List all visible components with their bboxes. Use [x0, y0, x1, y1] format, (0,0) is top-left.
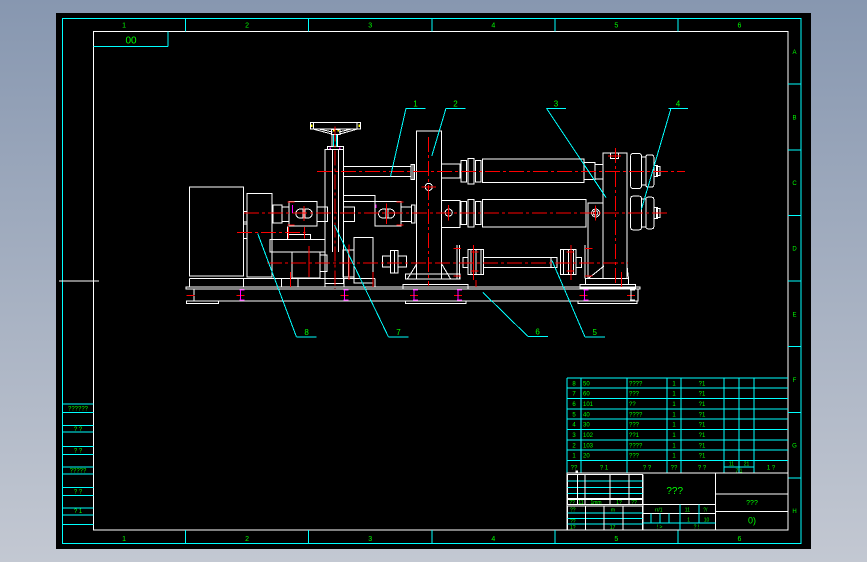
- svg-text:1: 1: [687, 517, 690, 523]
- svg-text:? ?: ? ?: [74, 427, 83, 433]
- svg-text:????: ????: [629, 443, 643, 449]
- svg-text:0): 0): [748, 516, 756, 526]
- svg-text:rr/1: rr/1: [655, 507, 663, 513]
- svg-text:?????: ?????: [70, 469, 87, 475]
- svg-text:?1: ?1: [699, 423, 706, 429]
- svg-text:11: 11: [685, 507, 690, 513]
- svg-text:4: 4: [491, 536, 495, 543]
- svg-text:1?: 1?: [616, 500, 622, 506]
- svg-text:2: 2: [245, 23, 249, 30]
- svg-text:50: 50: [583, 381, 590, 387]
- svg-text:101: 101: [583, 402, 594, 408]
- svg-text:30: 30: [583, 423, 590, 429]
- svg-text:40: 40: [583, 412, 590, 418]
- svg-text:? ?: ? ?: [643, 466, 652, 472]
- svg-text:?1: ?1: [699, 402, 706, 408]
- svg-text:! >: ! >: [657, 525, 663, 531]
- svg-text:?1: ?1: [699, 412, 706, 418]
- svg-text:103: 103: [583, 443, 594, 449]
- svg-text:???: ???: [629, 454, 640, 460]
- svg-text:102: 102: [583, 433, 594, 439]
- svg-text:10: 10: [704, 517, 710, 523]
- svg-text:G: G: [792, 444, 797, 450]
- svg-text:2: 2: [453, 99, 458, 108]
- svg-text:7: 7: [396, 328, 401, 337]
- svg-text:D: D: [792, 247, 797, 253]
- svg-text:4: 4: [676, 99, 681, 108]
- svg-text:???: ???: [629, 423, 640, 429]
- svg-text:F: F: [793, 378, 797, 384]
- svg-text:? 1: ? 1: [74, 509, 83, 515]
- svg-text:1: 1: [413, 99, 418, 108]
- svg-text:?1: ?1: [699, 433, 706, 439]
- svg-text:1: 1: [122, 536, 126, 543]
- svg-text:20: 20: [583, 454, 590, 460]
- svg-text:?1: ?1: [699, 454, 706, 460]
- svg-text:?/: ?/: [703, 507, 708, 513]
- svg-text:11: 11: [578, 500, 583, 506]
- svg-text:6: 6: [535, 327, 540, 336]
- svg-text:8: 8: [304, 328, 309, 337]
- svg-text:17: 17: [610, 525, 616, 531]
- svg-text:?1: ?1: [699, 443, 706, 449]
- svg-text:?1: ?1: [699, 381, 706, 387]
- svg-text:???: ???: [666, 486, 683, 497]
- svg-text:4: 4: [491, 23, 495, 30]
- svg-text:1 ?: 1 ?: [767, 466, 776, 472]
- svg-text:21: 21: [744, 462, 750, 468]
- svg-text:C: C: [792, 181, 797, 187]
- svg-text:? ?: ? ?: [698, 466, 707, 472]
- svg-text:?1: ?1: [699, 392, 706, 398]
- svg-text:60: 60: [583, 392, 590, 398]
- svg-text:1: 1: [122, 23, 126, 30]
- svg-text:????: ????: [629, 381, 643, 387]
- svg-text:3: 3: [554, 99, 559, 108]
- svg-text:H: H: [792, 509, 796, 515]
- svg-text:11: 11: [729, 462, 734, 468]
- svg-text:5: 5: [614, 23, 618, 30]
- svg-text:? ?: ? ?: [74, 489, 83, 495]
- svg-text:???: ???: [746, 500, 758, 507]
- svg-text:??: ??: [631, 500, 637, 506]
- svg-text:??: ??: [671, 466, 678, 472]
- svg-text:m: m: [611, 507, 615, 513]
- svg-text:1mm: 1mm: [590, 500, 601, 506]
- svg-text:????: ????: [629, 412, 643, 418]
- svg-text:? 1: ? 1: [600, 466, 609, 472]
- svg-text:???: ???: [629, 392, 640, 398]
- svg-text:3: 3: [368, 23, 372, 30]
- svg-text:??: ??: [569, 500, 575, 506]
- svg-text:6: 6: [738, 23, 742, 30]
- svg-text:1?: 1?: [570, 525, 576, 531]
- svg-text:5: 5: [614, 536, 618, 543]
- svg-text:2: 2: [245, 536, 249, 543]
- svg-text:A: A: [792, 50, 796, 56]
- svg-text:??????: ??????: [68, 406, 89, 412]
- svg-text:??: ??: [629, 402, 636, 408]
- svg-text:3: 3: [368, 536, 372, 543]
- svg-text:E: E: [792, 312, 796, 318]
- svg-text:6: 6: [738, 536, 742, 543]
- svg-text:? !: ? !: [694, 525, 700, 531]
- svg-text:? ?: ? ?: [74, 449, 83, 455]
- svg-text:5: 5: [592, 328, 597, 337]
- svg-text:B: B: [792, 115, 796, 121]
- svg-text:??: ??: [570, 507, 576, 513]
- svg-text:00: 00: [125, 36, 137, 47]
- svg-text:??1: ??1: [629, 433, 640, 439]
